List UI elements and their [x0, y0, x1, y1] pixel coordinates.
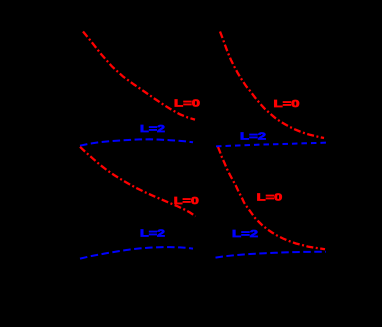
- svg-text:L=2: L=2: [140, 123, 165, 135]
- bottom-left panel: L=0 curve (red dash-dot): [80, 147, 196, 217]
- svg-text:L=0: L=0: [274, 98, 300, 110]
- top-right panel: L=0 curve (red dash-dot): [220, 32, 324, 139]
- bottom-right panel: L=0 curve (red dash-dot): [218, 147, 325, 249]
- svg-text:L=0: L=0: [174, 98, 200, 110]
- svg-text:L=0: L=0: [174, 195, 199, 207]
- svg-text:L=2: L=2: [140, 227, 165, 239]
- top-left panel: L=0 curve (red dash-dot): [83, 32, 195, 120]
- svg-text:L=0: L=0: [257, 191, 283, 203]
- svg-text:L=2: L=2: [240, 130, 266, 142]
- top-left panel: L=2 curve (blue dashed): [80, 139, 193, 145]
- bottom-right panel: L=2 curve (blue dashed): [216, 252, 327, 258]
- top-right panel: L=2 curve (blue dashed): [216, 143, 329, 147]
- svg-text:L=2: L=2: [232, 228, 258, 240]
- bottom-left panel: L=2 curve (blue dashed): [80, 247, 193, 259]
